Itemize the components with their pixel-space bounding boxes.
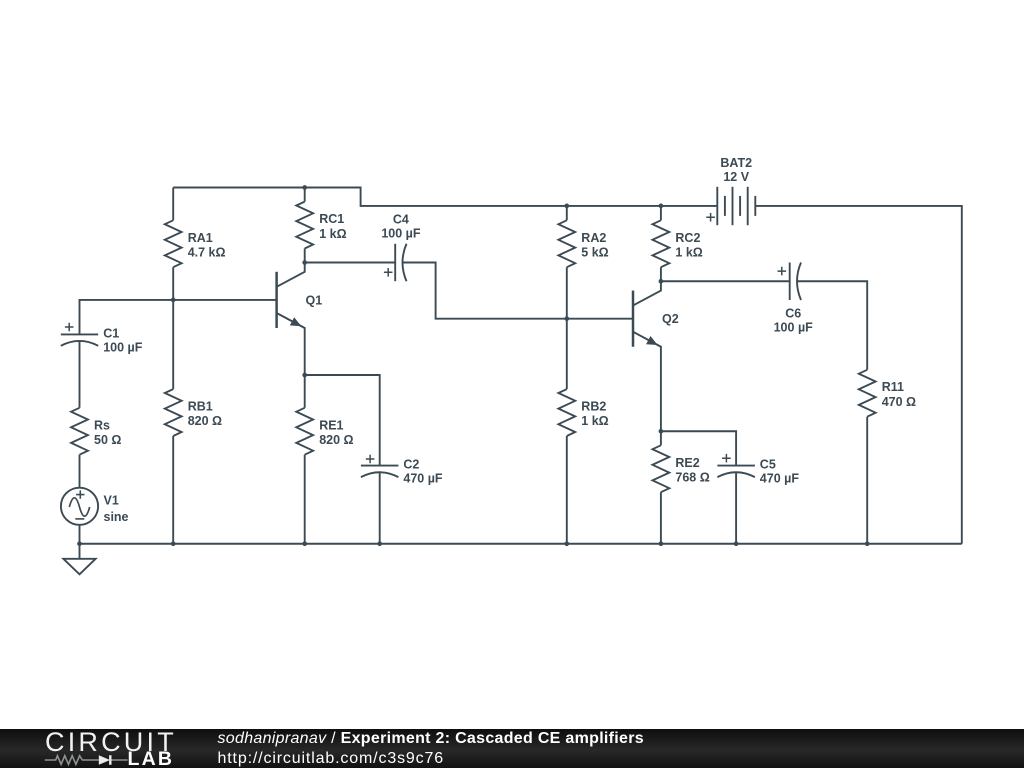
resistor RB1	[165, 389, 182, 436]
transistor Q2	[632, 291, 635, 347]
node ground C5	[734, 541, 739, 546]
wire RC1 bottom lead	[304, 249, 306, 263]
resistor RB2	[558, 389, 575, 436]
svg-text:BAT2: BAT2	[720, 156, 752, 170]
svg-text:1 kΩ: 1 kΩ	[581, 414, 608, 428]
wire RC2 to C6	[661, 280, 790, 282]
capacitor C6	[789, 263, 791, 301]
svg-text:100 µF: 100 µF	[103, 340, 143, 354]
wire C5 bottom lead	[735, 472, 737, 544]
CircuitLab logo LAB	[128, 752, 175, 767]
svg-text:Q1: Q1	[306, 294, 323, 308]
svg-text:RA2: RA2	[581, 231, 606, 245]
resistor RC1	[296, 202, 313, 249]
svg-text:100 µF: 100 µF	[774, 321, 814, 335]
svg-text:4.7 kΩ: 4.7 kΩ	[188, 245, 226, 259]
svg-text:820 Ω: 820 Ω	[319, 433, 353, 447]
wire Q2 emitter row to C5	[661, 431, 736, 465]
voltage source V1	[61, 488, 98, 525]
wire RE2 top lead	[660, 431, 662, 445]
capacitor C2	[361, 465, 399, 467]
resistor R11	[859, 370, 876, 417]
svg-text:RC1: RC1	[319, 212, 344, 226]
wire RE2 bottom lead	[660, 492, 662, 544]
capacitor C1	[61, 333, 98, 335]
svg-text:1 kΩ: 1 kΩ	[675, 245, 702, 259]
wire top rail right + right rail down	[755, 206, 962, 544]
wire Q1 emitter row to C2	[305, 375, 380, 466]
svg-text:470 µF: 470 µF	[403, 472, 443, 486]
wire RA2-RB2 link	[566, 267, 568, 389]
svg-text:RA1: RA1	[188, 231, 213, 245]
svg-text:V1: V1	[104, 493, 119, 507]
node Q2 emitter	[659, 429, 664, 434]
node Q2 collector	[659, 279, 664, 284]
svg-text:RB1: RB1	[188, 400, 213, 414]
svg-text:RE1: RE1	[319, 418, 343, 432]
wire RC2 bottom lead	[660, 267, 662, 281]
wire RE1 top lead	[304, 375, 306, 408]
node ground RE1	[302, 541, 307, 546]
svg-text:C1: C1	[103, 326, 119, 340]
node Q1 collector	[302, 260, 307, 265]
wire C1 to Rs	[79, 342, 81, 408]
footer url line	[218, 751, 445, 767]
wire C2 bottom lead	[379, 472, 381, 544]
ground	[79, 544, 81, 559]
wire Rs to V1	[79, 455, 81, 488]
node ground C2	[377, 541, 382, 546]
resistor Rs	[71, 408, 88, 455]
wire V1 to ground	[79, 525, 81, 544]
node RC1 top junction	[302, 185, 307, 190]
wire ground rail	[80, 543, 962, 545]
CircuitLab logo resistor-diode squiggle	[44, 753, 134, 767]
wire top rail left + jog	[173, 188, 717, 206]
svg-text:50 Ω: 50 Ω	[94, 433, 121, 447]
svg-text:C5: C5	[760, 458, 776, 472]
svg-text:RE2: RE2	[675, 456, 699, 470]
wire RB1 bottom lead	[172, 436, 174, 544]
svg-text:C2: C2	[403, 458, 419, 472]
resistor RA2	[558, 220, 575, 267]
svg-text:R11: R11	[882, 380, 904, 394]
svg-text:470 Ω: 470 Ω	[882, 395, 916, 409]
svg-text:C6: C6	[785, 306, 801, 320]
resistor RE1	[296, 408, 313, 455]
transistor Q1	[275, 272, 278, 328]
resistor RA1	[165, 220, 182, 267]
wire R11 bottom lead	[866, 417, 868, 544]
CircuitLab logo CIRCUIT	[45, 729, 177, 756]
svg-text:820 Ω: 820 Ω	[188, 414, 222, 428]
node Q2 base divider	[564, 316, 569, 321]
node RA2 top junction	[564, 204, 569, 209]
node ground RB2	[564, 541, 569, 546]
wire C4 to Q2 base	[403, 263, 634, 319]
svg-text:1 kΩ: 1 kΩ	[319, 227, 346, 241]
node ground RE2	[659, 541, 664, 546]
resistor RC2	[653, 220, 670, 267]
wire RB2 bottom lead	[566, 436, 568, 544]
capacitor C4	[394, 244, 396, 281]
svg-text:768 Ω: 768 Ω	[675, 470, 709, 484]
capacitor C5	[717, 465, 755, 467]
wire RA1 top lead	[172, 188, 174, 221]
footer bar	[0, 729, 1024, 768]
svg-text:5 kΩ: 5 kΩ	[581, 245, 608, 259]
wire C6 to R11	[797, 281, 867, 370]
svg-text:100 µF: 100 µF	[381, 227, 421, 241]
resistor RE2	[653, 445, 670, 492]
wire RC2 top lead	[660, 206, 662, 220]
wire RA1-RB1 link	[172, 267, 174, 389]
wire RE1 bottom lead	[304, 455, 306, 544]
svg-text:Q2: Q2	[662, 312, 679, 326]
node ground RB1	[171, 541, 176, 546]
battery BAT2	[716, 187, 718, 225]
node RC2 top junction	[659, 204, 664, 209]
svg-text:C4: C4	[393, 213, 409, 227]
wire C1 top lead + base row	[80, 300, 277, 334]
svg-text:470 µF: 470 µF	[760, 472, 800, 486]
node Q1 base divider	[171, 298, 176, 303]
node ground V1	[77, 541, 82, 546]
svg-text:RC2: RC2	[675, 231, 700, 245]
wire RC1 top lead	[304, 188, 306, 202]
wire RA2 top lead	[566, 206, 568, 220]
svg-text:Rs: Rs	[94, 418, 110, 432]
svg-text:12 V: 12 V	[723, 170, 749, 184]
wire RC1 to C4	[305, 262, 396, 264]
node ground R11	[865, 541, 870, 546]
node Q1 emitter	[302, 373, 307, 378]
footer title line	[218, 731, 644, 747]
svg-text:sine: sine	[104, 510, 129, 524]
svg-text:RB2: RB2	[581, 400, 606, 414]
